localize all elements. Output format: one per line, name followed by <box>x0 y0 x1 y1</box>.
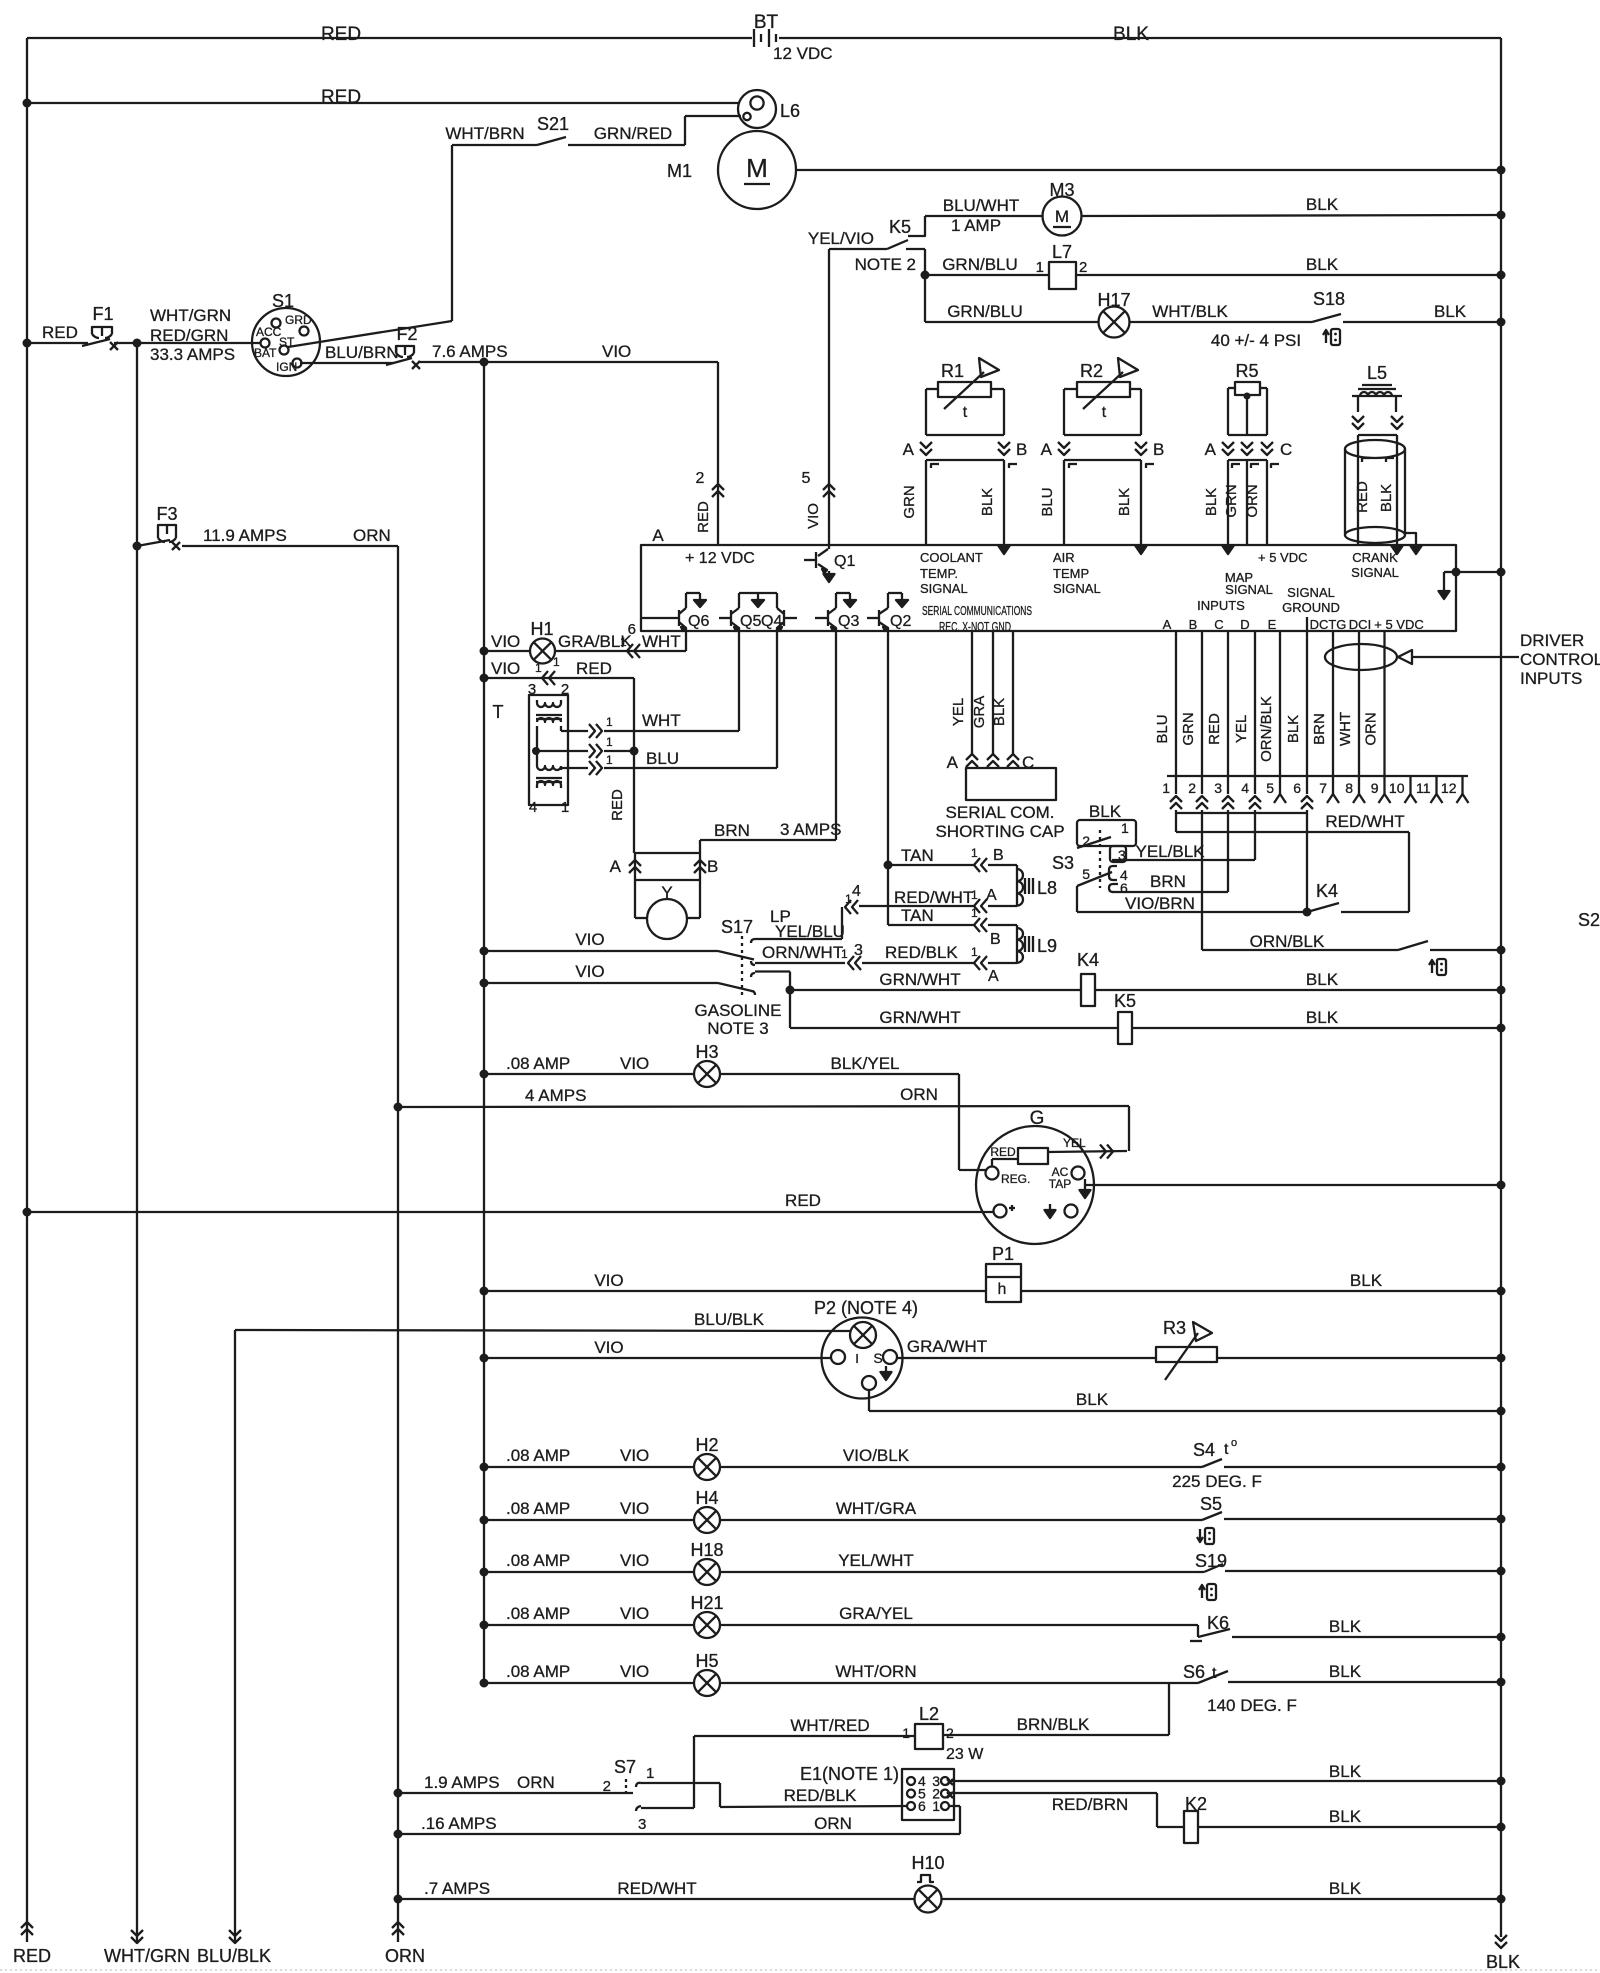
svg-text:ORN: ORN <box>814 1814 852 1833</box>
svg-text:K6: K6 <box>1207 1613 1229 1633</box>
svg-text:R5: R5 <box>1235 361 1258 381</box>
svg-text:BLK: BLK <box>1306 255 1339 274</box>
svg-text:GASOLINE: GASOLINE <box>695 1001 782 1020</box>
svg-text:ACC: ACC <box>256 325 282 339</box>
svg-text:AIR: AIR <box>1053 550 1075 565</box>
svg-text:GRN: GRN <box>1180 712 1197 745</box>
svg-text:H4: H4 <box>695 1488 718 1508</box>
svg-text:YEL: YEL <box>1233 715 1250 743</box>
svg-text:140 DEG. F: 140 DEG. F <box>1207 1696 1297 1715</box>
svg-text:VIO: VIO <box>620 1551 649 1570</box>
svg-text:RED: RED <box>1206 713 1223 745</box>
svg-text:TAN: TAN <box>901 846 934 865</box>
svg-text:R1: R1 <box>941 361 964 381</box>
svg-text:ST: ST <box>279 335 295 349</box>
svg-text:1: 1 <box>535 661 542 675</box>
svg-text:B: B <box>707 857 718 876</box>
svg-text:2: 2 <box>561 681 569 698</box>
svg-text:1: 1 <box>1162 780 1170 796</box>
svg-text:H3: H3 <box>695 1042 718 1062</box>
svg-text:1: 1 <box>971 888 978 902</box>
svg-text:D: D <box>1240 617 1249 632</box>
svg-text:F1: F1 <box>92 304 113 324</box>
svg-text:RED: RED <box>785 1191 821 1210</box>
svg-text:A: A <box>1205 440 1217 459</box>
svg-text:1: 1 <box>646 1765 654 1782</box>
svg-text:TEMP: TEMP <box>1053 566 1089 581</box>
svg-text:S2: S2 <box>1578 910 1600 930</box>
svg-text:1: 1 <box>932 1798 940 1814</box>
svg-text:Q2: Q2 <box>890 613 911 630</box>
svg-text:RED: RED <box>609 789 626 821</box>
svg-text:VIO: VIO <box>620 1054 649 1073</box>
svg-text:BLK: BLK <box>1329 1617 1362 1636</box>
svg-text:G: G <box>1030 1108 1045 1129</box>
svg-text:CRANK: CRANK <box>1352 550 1398 565</box>
svg-text:1 AMP: 1 AMP <box>951 216 1001 235</box>
svg-text:Q3: Q3 <box>838 613 859 630</box>
svg-text:1: 1 <box>841 947 848 961</box>
svg-text:RED/BRN: RED/BRN <box>1052 1795 1129 1814</box>
svg-text:t: t <box>1224 1441 1229 1458</box>
svg-text:BLU/WHT: BLU/WHT <box>943 196 1020 215</box>
svg-text:33.3 AMPS: 33.3 AMPS <box>150 345 235 364</box>
svg-text:BLK: BLK <box>1203 488 1220 516</box>
svg-text:A: A <box>947 753 959 772</box>
svg-text:12 VDC: 12 VDC <box>773 44 833 63</box>
svg-text:A: A <box>1163 617 1172 632</box>
svg-text:1: 1 <box>902 1725 910 1741</box>
svg-text:TEMP.: TEMP. <box>920 566 958 581</box>
svg-text:REG.: REG. <box>1001 1172 1030 1186</box>
svg-text:GRN/BLU: GRN/BLU <box>942 255 1018 274</box>
svg-text:1: 1 <box>553 655 560 669</box>
svg-text:RED/WHT: RED/WHT <box>1325 812 1404 831</box>
svg-text:SHORTING CAP: SHORTING CAP <box>935 822 1064 841</box>
svg-text:3: 3 <box>638 1816 646 1833</box>
svg-text:5: 5 <box>1082 866 1090 882</box>
svg-text:B: B <box>993 847 1004 864</box>
svg-text:M: M <box>1055 207 1069 226</box>
svg-text:S1: S1 <box>272 291 294 311</box>
svg-text:BLK: BLK <box>1116 488 1133 516</box>
svg-text:VIO: VIO <box>491 659 520 678</box>
svg-text:GRN: GRN <box>1223 484 1240 517</box>
svg-text:GRN/WHT: GRN/WHT <box>879 1008 960 1027</box>
svg-text:BLK: BLK <box>1089 802 1122 821</box>
svg-text:K5: K5 <box>889 217 911 237</box>
svg-text:TAN: TAN <box>901 906 934 925</box>
svg-text:SIGNAL: SIGNAL <box>1287 585 1335 600</box>
svg-text:VIO: VIO <box>575 930 604 949</box>
svg-text:GRD: GRD <box>285 313 312 327</box>
svg-text:2: 2 <box>946 1725 954 1741</box>
svg-text:BRN: BRN <box>714 821 750 840</box>
svg-text:VIO: VIO <box>594 1338 623 1357</box>
svg-text:SERIAL COMMUNICATIONS: SERIAL COMMUNICATIONS <box>922 603 1032 618</box>
svg-text:3: 3 <box>1118 847 1126 863</box>
svg-text:BRN/BLK: BRN/BLK <box>1017 1715 1090 1734</box>
svg-text:10: 10 <box>1389 780 1405 796</box>
svg-text:9: 9 <box>1371 780 1379 796</box>
svg-text:H1: H1 <box>530 619 553 639</box>
svg-text:C: C <box>1022 753 1034 772</box>
svg-text:1: 1 <box>845 892 852 906</box>
svg-text:1: 1 <box>971 846 978 860</box>
svg-text:SIGNAL: SIGNAL <box>1225 582 1273 597</box>
svg-text:DCTG: DCTG <box>1310 617 1347 632</box>
svg-text:I: I <box>855 1351 859 1366</box>
svg-text:YEL/VIO: YEL/VIO <box>808 229 874 248</box>
svg-text:1.9 AMPS: 1.9 AMPS <box>424 1773 500 1792</box>
svg-text:H10: H10 <box>911 1853 944 1873</box>
svg-text:WHT/BLK: WHT/BLK <box>1152 302 1228 321</box>
svg-text:L7: L7 <box>1052 242 1072 262</box>
svg-text:BLK: BLK <box>1378 484 1395 512</box>
svg-text:7: 7 <box>1319 780 1327 796</box>
svg-text:BLK: BLK <box>1306 1008 1339 1027</box>
svg-text:23 W: 23 W <box>946 1746 984 1763</box>
svg-text:BLK: BLK <box>1329 1807 1362 1826</box>
svg-text:VIO: VIO <box>620 1499 649 1518</box>
svg-text:S18: S18 <box>1313 289 1345 309</box>
svg-text:t: t <box>963 404 968 421</box>
svg-text:Q4: Q4 <box>761 613 782 630</box>
svg-text:VIO: VIO <box>575 962 604 981</box>
svg-text:F3: F3 <box>156 504 177 524</box>
svg-text:CONTROL: CONTROL <box>1520 650 1600 669</box>
svg-text:ORN/BLK: ORN/BLK <box>1258 696 1275 762</box>
svg-text:YEL: YEL <box>950 698 967 726</box>
svg-text:BLK: BLK <box>1350 1271 1383 1290</box>
svg-text:BLK: BLK <box>1329 1879 1362 1898</box>
svg-text:RED/BLK: RED/BLK <box>784 1786 857 1805</box>
svg-text:+ 5 VDC: + 5 VDC <box>1258 550 1308 565</box>
svg-text:GRN/RED: GRN/RED <box>594 124 672 143</box>
svg-text:+ 12 VDC: + 12 VDC <box>685 550 755 567</box>
svg-text:11: 11 <box>1416 780 1431 796</box>
svg-text:BAT: BAT <box>254 346 277 360</box>
svg-text:BRN: BRN <box>1311 713 1328 745</box>
svg-text:BLK: BLK <box>1076 1390 1109 1409</box>
svg-text:F2: F2 <box>396 324 417 344</box>
svg-text:GRN/BLU: GRN/BLU <box>947 302 1023 321</box>
svg-text:GRA/YEL: GRA/YEL <box>839 1604 913 1623</box>
svg-text:.08 AMP: .08 AMP <box>506 1551 570 1570</box>
svg-text:A: A <box>903 440 915 459</box>
svg-text:VIO: VIO <box>805 503 822 529</box>
svg-text:BLU: BLU <box>1154 714 1171 743</box>
svg-text:8: 8 <box>1345 780 1353 796</box>
svg-text:.08 AMP: .08 AMP <box>506 1604 570 1623</box>
svg-text:A: A <box>988 968 999 985</box>
svg-text:B: B <box>1153 440 1164 459</box>
svg-text:2: 2 <box>1082 833 1090 849</box>
svg-text:H21: H21 <box>690 1593 723 1613</box>
svg-text:11.9 AMPS: 11.9 AMPS <box>203 526 287 545</box>
svg-text:5: 5 <box>802 470 811 487</box>
svg-text:t: t <box>1212 1665 1217 1682</box>
svg-text:DRIVER: DRIVER <box>1520 631 1584 650</box>
svg-text:WHT/GRN: WHT/GRN <box>150 306 231 325</box>
svg-text:WHT: WHT <box>642 632 681 651</box>
svg-text:RED/WHT: RED/WHT <box>617 1879 696 1898</box>
svg-text:ORN/WHT: ORN/WHT <box>762 943 843 962</box>
svg-text:WHT: WHT <box>642 711 681 730</box>
svg-text:R3: R3 <box>1163 1318 1186 1338</box>
svg-text:3: 3 <box>528 681 536 698</box>
svg-text:6: 6 <box>1293 780 1301 796</box>
svg-text:BLU: BLU <box>646 749 679 768</box>
svg-text:YEL/WHT: YEL/WHT <box>838 1551 914 1570</box>
svg-text:H5: H5 <box>695 1651 718 1671</box>
svg-text:INPUTS: INPUTS <box>1197 598 1245 613</box>
svg-text:VIO: VIO <box>620 1604 649 1623</box>
svg-text:C: C <box>1214 617 1223 632</box>
svg-text:S19: S19 <box>1195 1551 1227 1571</box>
svg-text:A: A <box>652 526 664 545</box>
svg-text:o: o <box>1231 1437 1237 1449</box>
svg-text:4: 4 <box>852 883 861 900</box>
svg-text:2: 2 <box>696 470 705 487</box>
svg-text:S7: S7 <box>614 1757 636 1777</box>
svg-text:VIO: VIO <box>620 1662 649 1681</box>
svg-text:BT: BT <box>754 12 779 33</box>
svg-text:VIO: VIO <box>491 632 520 651</box>
svg-text:BLK: BLK <box>1329 1762 1362 1781</box>
svg-text:RED: RED <box>576 659 612 678</box>
svg-text:4 AMPS: 4 AMPS <box>525 1086 586 1105</box>
svg-text:1: 1 <box>561 799 569 816</box>
svg-text:VIO: VIO <box>594 1271 623 1290</box>
svg-text:GRN/WHT: GRN/WHT <box>879 970 960 989</box>
svg-text:4: 4 <box>529 799 537 816</box>
svg-text:B: B <box>990 931 1001 948</box>
svg-text:h: h <box>998 1281 1007 1298</box>
svg-text:Q6: Q6 <box>688 613 709 630</box>
svg-text:REC. X-NOT GND: REC. X-NOT GND <box>939 619 1011 634</box>
svg-text:RED: RED <box>990 1145 1016 1159</box>
svg-text:5: 5 <box>1266 780 1274 796</box>
svg-text:WHT/GRA: WHT/GRA <box>836 1499 917 1518</box>
svg-text:B: B <box>1189 617 1198 632</box>
svg-text:E: E <box>1268 617 1277 632</box>
svg-text:L9: L9 <box>1037 936 1057 956</box>
svg-text:H17: H17 <box>1097 290 1130 310</box>
svg-text:1: 1 <box>1121 820 1129 836</box>
svg-text:12: 12 <box>1441 780 1457 796</box>
svg-text:40 +/- 4 PSI: 40 +/- 4 PSI <box>1211 331 1301 350</box>
svg-text:RED: RED <box>321 87 361 108</box>
svg-text:BLK: BLK <box>1486 1952 1520 1972</box>
svg-text:TAP: TAP <box>1049 1177 1071 1191</box>
svg-text:SIGNAL: SIGNAL <box>1351 565 1399 580</box>
svg-text:VIO/BRN: VIO/BRN <box>1125 894 1195 913</box>
svg-text:BLK/YEL: BLK/YEL <box>831 1054 900 1073</box>
svg-text:t: t <box>1102 404 1107 421</box>
svg-text:+ 5 VDC: + 5 VDC <box>1374 617 1424 632</box>
svg-text:RED: RED <box>13 1946 51 1966</box>
svg-text:S4: S4 <box>1193 1440 1215 1460</box>
svg-text:1: 1 <box>606 753 613 767</box>
svg-text:1: 1 <box>971 906 978 920</box>
svg-text:RED/GRN: RED/GRN <box>150 326 228 345</box>
svg-text:RED: RED <box>695 501 712 533</box>
svg-text:YEL: YEL <box>1063 1136 1086 1150</box>
svg-text:BRN: BRN <box>1150 872 1186 891</box>
svg-text:COOLANT: COOLANT <box>920 550 983 565</box>
svg-text:GRA: GRA <box>971 696 988 729</box>
svg-text:Q5: Q5 <box>740 613 761 630</box>
svg-text:6: 6 <box>918 1798 926 1814</box>
svg-text:S6: S6 <box>1183 1662 1205 1682</box>
svg-text:BLU/BRN: BLU/BRN <box>325 343 399 362</box>
svg-text:WHT: WHT <box>1337 712 1354 746</box>
svg-text:Y: Y <box>661 883 672 902</box>
svg-text:1: 1 <box>971 945 978 959</box>
svg-text:M: M <box>746 153 768 183</box>
svg-text:WHT/GRN: WHT/GRN <box>104 1946 190 1966</box>
svg-text:1: 1 <box>606 735 613 749</box>
svg-text:ORN: ORN <box>1363 712 1380 745</box>
svg-text:WHT/BRN: WHT/BRN <box>445 124 524 143</box>
svg-text:SIGNAL: SIGNAL <box>920 581 968 596</box>
svg-text:RED/WHT: RED/WHT <box>894 888 973 907</box>
svg-text:Q1: Q1 <box>834 553 855 570</box>
svg-text:NOTE 3: NOTE 3 <box>707 1019 768 1038</box>
svg-text:RED: RED <box>1354 481 1371 513</box>
svg-text:BLK: BLK <box>1113 24 1149 45</box>
svg-text:BLK: BLK <box>1306 195 1339 214</box>
svg-text:K2: K2 <box>1185 1794 1207 1814</box>
svg-text:SERIAL COM.: SERIAL COM. <box>946 803 1055 822</box>
svg-text:GRN: GRN <box>901 485 918 518</box>
svg-text:1: 1 <box>620 635 627 649</box>
svg-text:BLU/BLK: BLU/BLK <box>694 1310 765 1329</box>
svg-text:L6: L6 <box>780 101 800 121</box>
svg-text:M1: M1 <box>667 161 692 181</box>
svg-text:E1(NOTE 1): E1(NOTE 1) <box>800 1764 899 1784</box>
svg-text:VIO/BLK: VIO/BLK <box>843 1446 910 1465</box>
svg-text:ORN/BLK: ORN/BLK <box>1250 932 1325 951</box>
svg-text:L5: L5 <box>1367 363 1387 383</box>
svg-text:1: 1 <box>606 715 613 729</box>
svg-text:WHT/RED: WHT/RED <box>790 1716 869 1735</box>
svg-text:RED: RED <box>42 323 78 342</box>
svg-text:RED/BLK: RED/BLK <box>885 943 958 962</box>
svg-text:S21: S21 <box>537 114 569 134</box>
svg-text:ORN: ORN <box>353 526 391 545</box>
svg-text:YEL/BLK: YEL/BLK <box>1136 842 1206 861</box>
svg-text:7.6 AMPS: 7.6 AMPS <box>432 342 508 361</box>
svg-text:A: A <box>986 887 997 904</box>
svg-text:.08 AMP: .08 AMP <box>506 1662 570 1681</box>
svg-text:S3: S3 <box>1052 853 1074 873</box>
svg-text:ORN: ORN <box>517 1773 555 1792</box>
svg-text:IGN: IGN <box>276 360 297 374</box>
svg-text:BLK: BLK <box>1285 715 1302 743</box>
svg-text:4: 4 <box>1241 780 1249 796</box>
svg-text:M3: M3 <box>1049 180 1074 200</box>
svg-text:K4: K4 <box>1077 950 1099 970</box>
svg-text:BLK: BLK <box>1329 1662 1362 1681</box>
svg-text:C: C <box>1280 440 1292 459</box>
svg-text:SIGNAL: SIGNAL <box>1053 581 1101 596</box>
svg-text:P2 (NOTE 4): P2 (NOTE 4) <box>814 1298 918 1318</box>
svg-text:.7 AMPS: .7 AMPS <box>424 1879 490 1898</box>
svg-text:BLK: BLK <box>991 698 1008 726</box>
svg-text:2: 2 <box>1188 780 1196 796</box>
svg-text:T: T <box>493 702 504 722</box>
svg-text:VIO: VIO <box>602 342 631 361</box>
svg-text:K5: K5 <box>1114 991 1136 1011</box>
svg-text:B: B <box>1016 440 1027 459</box>
svg-text:R2: R2 <box>1080 361 1103 381</box>
svg-text:L8: L8 <box>1037 878 1057 898</box>
svg-text:GRA/WHT: GRA/WHT <box>907 1337 987 1356</box>
svg-text:RED: RED <box>321 24 361 45</box>
svg-text:H18: H18 <box>690 1540 723 1560</box>
svg-text:3: 3 <box>854 942 863 959</box>
svg-text:A: A <box>1041 440 1053 459</box>
svg-text:NOTE 2: NOTE 2 <box>855 255 916 274</box>
svg-text:BLU/BLK: BLU/BLK <box>197 1946 271 1966</box>
svg-text:A: A <box>610 857 622 876</box>
svg-text:2: 2 <box>1079 259 1087 276</box>
svg-text:3: 3 <box>1214 780 1222 796</box>
svg-text:225 DEG. F: 225 DEG. F <box>1172 1472 1262 1491</box>
svg-text:3 AMPS: 3 AMPS <box>780 820 841 839</box>
svg-text:2: 2 <box>603 1778 611 1795</box>
svg-text:GROUND: GROUND <box>1282 600 1340 615</box>
svg-text:P1: P1 <box>992 1244 1014 1264</box>
svg-text:BLK: BLK <box>1434 302 1467 321</box>
svg-text:BLK: BLK <box>979 488 996 516</box>
svg-text:ORN: ORN <box>900 1085 938 1104</box>
svg-text:.08 AMP: .08 AMP <box>506 1499 570 1518</box>
svg-text:YEL/BLU: YEL/BLU <box>775 922 845 941</box>
svg-text:S17: S17 <box>721 917 753 937</box>
svg-text:1: 1 <box>1036 259 1044 276</box>
svg-text:VIO: VIO <box>620 1446 649 1465</box>
svg-text:ORN: ORN <box>385 1946 425 1966</box>
svg-text:.16 AMPS: .16 AMPS <box>421 1814 497 1833</box>
svg-text:.08 AMP: .08 AMP <box>506 1446 570 1465</box>
svg-text:WHT/ORN: WHT/ORN <box>835 1662 916 1681</box>
svg-text:BLU: BLU <box>1039 487 1056 516</box>
svg-text:.08 AMP: .08 AMP <box>506 1054 570 1073</box>
svg-text:DCI: DCI <box>1349 617 1371 632</box>
svg-text:K4: K4 <box>1316 881 1338 901</box>
svg-text:ORN: ORN <box>1244 484 1261 517</box>
svg-text:BLK: BLK <box>1306 970 1339 989</box>
svg-text:H2: H2 <box>695 1435 718 1455</box>
svg-text:L2: L2 <box>919 1704 939 1724</box>
svg-text:S5: S5 <box>1200 1494 1222 1514</box>
svg-text:S: S <box>873 1350 882 1366</box>
svg-text:INPUTS: INPUTS <box>1520 669 1582 688</box>
